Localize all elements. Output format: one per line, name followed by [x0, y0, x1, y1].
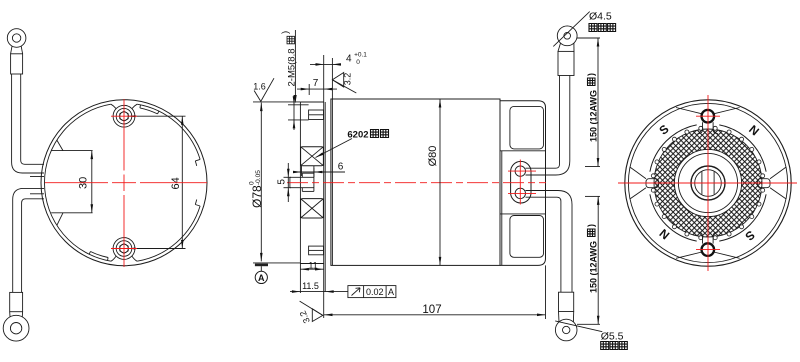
svg-text:11: 11	[308, 261, 317, 271]
svg-text:2-M5(8.8: 2-M5(8.8	[287, 48, 298, 86]
svg-text:0: 0	[356, 59, 360, 66]
svg-text:): )	[586, 73, 596, 76]
svg-text:3.2: 3.2	[343, 73, 353, 86]
svg-text:+0.1: +0.1	[354, 52, 367, 59]
svg-text:7: 7	[313, 78, 319, 89]
svg-text:4: 4	[346, 54, 352, 65]
svg-text:150 (12AWG: 150 (12AWG	[589, 241, 599, 293]
svg-text:Ø80: Ø80	[427, 146, 439, 167]
svg-text:1.6: 1.6	[253, 82, 266, 92]
svg-text:107: 107	[422, 304, 441, 316]
svg-text:64: 64	[170, 177, 182, 189]
svg-text:Ø4.5: Ø4.5	[589, 11, 612, 23]
svg-text:6: 6	[338, 162, 344, 173]
svg-text:A: A	[388, 287, 394, 297]
svg-text:0.02: 0.02	[366, 287, 384, 297]
svg-text:Ø78: Ø78	[250, 185, 264, 208]
svg-text:): )	[280, 31, 291, 34]
svg-text:Ø5.5: Ø5.5	[601, 330, 624, 342]
svg-text:150 (12AWG: 150 (12AWG	[589, 90, 599, 142]
svg-text:5: 5	[276, 179, 287, 185]
svg-text:6202: 6202	[347, 129, 368, 140]
svg-text:11.5: 11.5	[302, 281, 319, 291]
svg-text:A: A	[258, 273, 265, 283]
svg-text:-0.05: -0.05	[255, 170, 262, 185]
svg-text:): )	[586, 224, 596, 227]
